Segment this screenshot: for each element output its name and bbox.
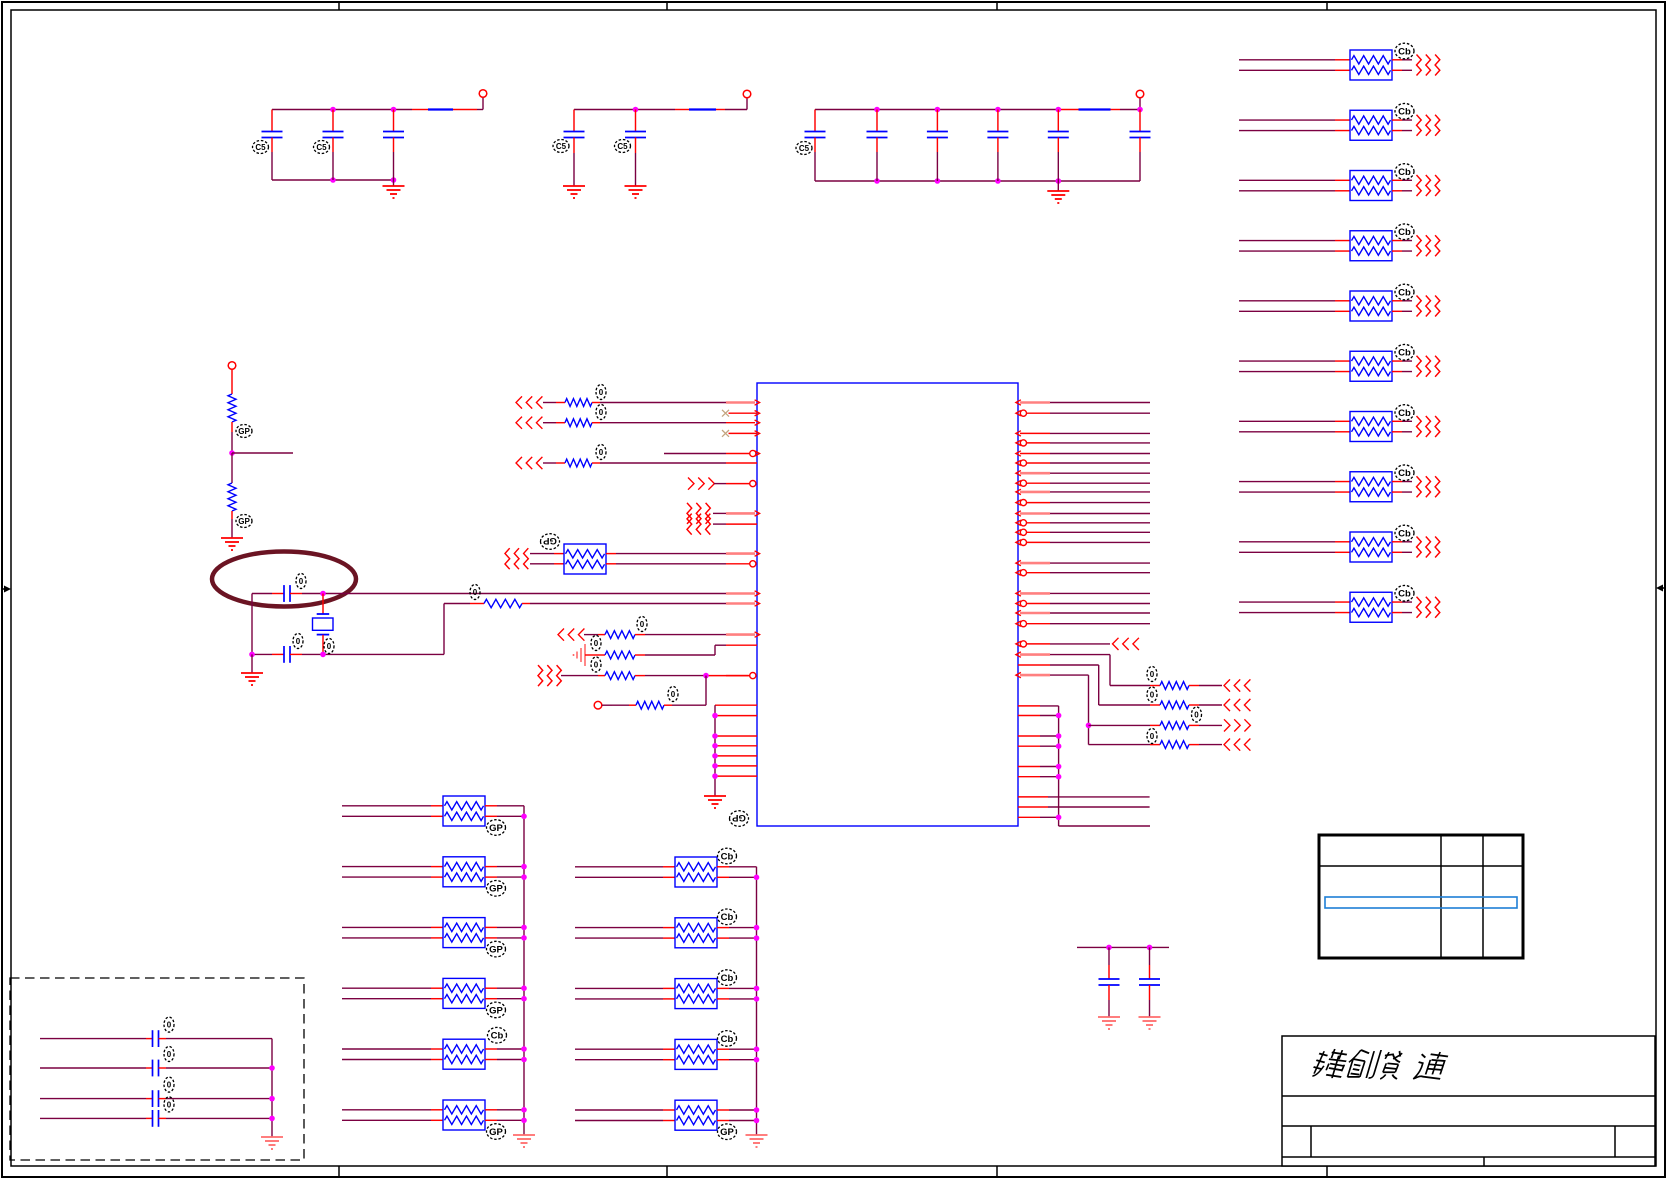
svg-text:0: 0 [599,448,604,457]
connector chevrons RP5 [1417,296,1440,317]
wire inputs RP7 [1239,421,1350,432]
junction left bus y765.9 [712,763,718,769]
label RP4 [1395,224,1414,240]
pin U1 right y513.5 wire [1016,511,1150,516]
label C2 [314,141,330,154]
junction bus RP17 b [521,1118,527,1124]
svg-text:GP: GP [238,427,250,436]
resistor pack RP8 [1350,472,1392,502]
svg-text:C5: C5 [556,142,567,151]
junction right bus y715.5 [1056,713,1062,719]
junction R6 node [703,673,709,679]
label RP20 [718,970,737,986]
ground dashed box [261,1137,283,1149]
resistor R5 with analog ground [574,644,758,666]
resistor pack RP18 [675,857,717,887]
svg-text:0: 0 [167,1050,172,1059]
svg-text:0: 0 [327,642,332,651]
svg-text:C5: C5 [617,142,628,151]
wire outputs RP16 [485,1049,524,1060]
wire inputs RP13 [342,867,443,878]
junction bus RP18 b [754,875,760,881]
junction bus RP21 b [754,1057,760,1063]
pin stub U1 left y736 [715,735,757,737]
junction bus RP19 b [754,935,760,941]
resistor pack RP7 [1350,412,1392,442]
label R8 [1147,667,1157,682]
wire outputs RP21 [717,1049,757,1060]
pin stub U1 left y715.6 [715,715,757,717]
pin U1 right y563.1 wire [1016,560,1150,565]
svg-text:GP: GP [542,535,556,546]
label C4 [553,140,569,153]
dashed option box [10,978,304,1160]
pin U1 right y473.2 wire [1016,471,1150,476]
wire inputs RP19 [575,928,675,939]
label C5 [615,140,631,153]
label C6 [796,142,812,155]
ground C4 [563,186,585,198]
pin stub U1 right y715.5 [1018,715,1040,717]
pin U1 right y623.7 wire [1016,621,1150,627]
junction bus RP14 b [521,935,527,941]
capacitor C4 [564,110,585,187]
pin U1 right y453.5 wire [1016,451,1150,456]
junction dbox 2 [269,1065,275,1071]
label GND GP [730,811,749,827]
ground group1 [383,180,405,198]
svg-text:0: 0 [299,577,304,586]
junction rail C5 [633,107,639,113]
junction bottom group3 [1056,178,1062,184]
label RP3 [1395,164,1414,180]
junction right bus y817.3 [1056,815,1062,821]
junction right bus y766.5 [1056,764,1062,770]
capacitor C6 [805,110,826,182]
junction dbox 3 [269,1096,275,1102]
wire outputs RP14 [485,927,524,938]
pin U1 right y807.0 long wire [1018,806,1048,808]
svg-text:0: 0 [167,1100,172,1109]
junction bus RP22 b [754,1118,760,1124]
junction bottom group3 [874,178,880,184]
label RP15 [487,1002,506,1018]
resistor pack RP6 [1350,351,1392,381]
svg-text:0: 0 [599,408,604,417]
svg-text:Cb: Cb [721,1034,734,1045]
svg-text:GP: GP [489,1005,503,1016]
label RP10 [1395,585,1414,601]
wire outputs RP12 [485,806,524,817]
resistor R row y402.5 with connector [516,396,760,408]
connector chevrons RP10 [1417,597,1440,618]
svg-text:0: 0 [599,388,604,397]
pin stub U1 right y776.7 [1018,776,1040,778]
wire VCC rail group2 [574,98,747,110]
wire left pack bus [523,806,525,1135]
pin U1 right y603.5 wire [1016,600,1150,606]
capacitor C5 [625,110,646,187]
junction right bus y776.7 [1056,774,1062,780]
pin U1 right y502.6 wire [1016,500,1150,506]
svg-text:Cb: Cb [1398,468,1411,479]
capacitor C7 [867,110,888,182]
wire inputs RP22 [575,1110,675,1121]
capacitor C8 [927,110,948,182]
pin stub U1 left y755.9 [715,755,757,757]
capacitor C12 and wire XTAL1 [252,585,760,602]
wire inputs RP20 [575,988,675,999]
resistor pack RP22 [675,1100,717,1130]
capacitor C16 [40,1090,272,1107]
junction bottom rail C2 [330,177,336,183]
pin stub U1 left y705 [715,704,757,706]
wire to pin y453 [664,450,760,456]
svg-text:C5: C5 [799,144,810,153]
label RP14 [487,941,506,957]
label RP9 [1395,525,1414,541]
company logo text [1311,1049,1449,1079]
wire outputs RP9 [1392,542,1412,553]
pin U1 right y613.0 wire [1016,610,1150,615]
wire outputs RP19 [717,928,757,939]
label C15 [164,1047,174,1062]
svg-text:0: 0 [594,639,599,648]
wire pin y675 vertical [1016,672,1089,744]
label C1 [253,141,269,154]
capacitor C1 [262,110,283,181]
svg-text:C5: C5 [255,143,266,152]
resistor pack RP4 [1350,231,1392,261]
ground left pack bus [513,1135,535,1147]
pin U1 right y593.4 wire [1016,591,1150,596]
ground divider [221,538,243,550]
wire outputs RP13 [485,867,524,878]
resistor R4 row with connector [558,629,760,641]
junction XTAL2 [320,652,326,658]
terminal pin group1 [479,90,487,98]
svg-text:C5: C5 [316,143,327,152]
title block [1282,1036,1655,1166]
junction rail group3 [995,107,1001,113]
junction bus RP19 a [754,925,760,931]
connector inputs RP11 [505,548,564,569]
wire inputs RP5 [1239,301,1350,312]
wire outputs RP1 [1392,60,1412,71]
top border zone ticks [339,2,1327,10]
resistor R8 series row [1016,652,1251,692]
label R7 [668,687,678,702]
junction bus RP17 a [521,1107,527,1113]
wire outputs RP3 [1392,180,1412,191]
wire crystal ground leg [251,594,253,655]
wire inputs RP21 [575,1049,675,1060]
resistor pack RP12 [443,796,485,826]
junction bus RP13 a [521,864,527,870]
pin U1 right y402.5 wire [1016,400,1150,405]
resistor R row y463 with connector [516,457,757,469]
ground C5 [625,186,647,198]
junction bus RP21 a [754,1046,760,1052]
ground group3 [1047,181,1069,203]
svg-text:GP: GP [731,812,745,823]
label RP11 [541,534,560,550]
junction bus RP16 b [521,1057,527,1063]
svg-text:0: 0 [1194,710,1199,719]
pin U1 right y442.9 wire [1016,440,1150,446]
connector chevrons RP4 [1417,235,1440,256]
resistor pack RP9 [1350,532,1392,562]
resistor pack RP16 [443,1039,485,1069]
svg-text:Cb: Cb [1398,46,1411,57]
pin stub U1 right y817.3 [1018,816,1040,818]
capacitor C10 [1048,110,1069,182]
junction left bus y776.1 [712,773,718,779]
svg-text:0: 0 [473,588,478,597]
connector chevrons RP7 [1417,416,1440,437]
svg-text:Cb: Cb [1398,348,1411,359]
wire divider tap [232,452,293,454]
wire outputs RP10 [1392,602,1412,613]
connector chevrons RP6 [1417,356,1440,377]
svg-text:Cb: Cb [1398,227,1411,238]
label RP21 [718,1031,737,1047]
junction bus RP13 b [521,874,527,880]
no-connect pin U1 y433 [722,430,760,437]
junction cap pair 2 [1147,945,1153,951]
label R3 [470,585,480,600]
junction right bus y736.0 [1056,733,1062,739]
wire dashed box bus [271,1039,273,1137]
junction left bus y715.6 [712,713,718,719]
resistor pack RP11 [564,544,606,574]
junction rail group3 [935,107,941,113]
junction left bus y755.9 [712,753,718,759]
label C14 [164,1017,174,1032]
wire inputs RP3 [1239,180,1350,191]
junction dbox 4 [269,1116,275,1122]
resistor R7 row with terminal [594,676,706,710]
terminal pin divider [228,362,236,370]
wire outputs RP15 [485,988,524,999]
wire inputs RP17 [342,1110,443,1121]
wire inputs RP16 [342,1049,443,1060]
label RP18 [718,848,737,864]
wire to crystal ground [251,654,253,673]
ground crystal [241,673,263,685]
pin stub U1 left y765.9 [715,765,757,767]
junction left bus y745.8 [712,743,718,749]
svg-text:0: 0 [167,1021,172,1030]
svg-text:GP: GP [489,823,503,834]
no-connect pin U1 y413 [722,410,760,417]
junction y725 [1086,723,1092,729]
connector chevrons RP1 [1417,55,1440,76]
resistor R11 series row [1089,739,1251,751]
junction rail group3 [1137,107,1143,113]
label C13 [293,634,303,649]
svg-text:Cb: Cb [1398,167,1411,178]
resistor pack RP15 [443,978,485,1008]
wire right pin bus [1058,706,1060,826]
wire inputs RP9 [1239,542,1350,553]
wire outputs RP18 [717,867,757,878]
label R4 [637,617,647,632]
bottom border zone ticks [339,1166,1327,1176]
label C12 [296,574,306,589]
wire VCC rail group1 [272,97,483,180]
wire outputs RP22 [717,1110,757,1121]
label R9 [1147,687,1157,702]
resistor pack RP13 [443,857,485,887]
wire outputs RP6 [1392,361,1412,372]
svg-text:GP: GP [720,1127,734,1138]
connector output y644 [1016,638,1139,650]
junction bus RP15 a [521,985,527,991]
resistor R10 series row [1089,719,1251,731]
pin U1 right y483.2 wire [1016,480,1150,486]
svg-text:0: 0 [1150,732,1155,741]
label RP13 [487,881,506,897]
pin stub U1 right y736.0 [1018,735,1040,737]
svg-text:GP: GP [238,517,250,526]
svg-text:Cb: Cb [1398,528,1411,539]
svg-text:Cb: Cb [721,973,734,984]
label RP2 [1395,103,1414,119]
wire outputs RP17 [485,1110,524,1121]
wire inputs RP10 [1239,602,1350,613]
wire RP11 out top [606,551,760,556]
label R1 [236,425,252,438]
label R y422.7 [596,405,606,420]
connector input y524 [687,514,757,535]
ground right pack bus [746,1135,768,1147]
pin U1 right y522.8 wire [1016,520,1150,526]
wire inputs RP2 [1239,120,1350,131]
capacitor C2 [323,110,344,181]
svg-text:0: 0 [1150,690,1155,699]
label R y463 [596,445,606,460]
wire right bus to east [1059,825,1150,827]
terminal pin group3 [1136,90,1144,98]
revision highlight row [1325,897,1517,908]
label RP5 [1395,284,1414,300]
wire inputs RP15 [342,988,443,999]
connector chevrons RP8 [1417,476,1440,497]
label R2 [236,515,252,528]
label R6 [591,657,601,672]
pin U1 right y463.0 wire [1016,460,1150,466]
ground C19 [1139,1017,1161,1029]
svg-text:GP: GP [489,945,503,956]
pin U1 right y572.7 wire [1016,570,1150,576]
junction right bus y746.2 [1056,743,1062,749]
resistor pack RP10 [1350,592,1392,622]
svg-text:0: 0 [671,690,676,699]
capacitor C3 [383,110,404,181]
junction top rail C3 [391,107,397,113]
label RP22 [718,1124,737,1140]
capacitor C14 [40,1030,272,1047]
junction bus RP12 b [521,814,527,820]
wire inputs RP18 [575,867,675,878]
wire outputs RP5 [1392,301,1412,312]
junction bus RP15 b [521,996,527,1002]
wire inputs RP14 [342,927,443,938]
resistor R6 row with connector [538,665,756,686]
junction bottom group3 [995,178,1001,184]
pin stub U1 left y745.8 [715,745,757,747]
label RP12 [487,820,506,836]
wire right pack bus [756,867,758,1135]
svg-text:Cb: Cb [721,912,734,923]
svg-text:0: 0 [594,660,599,669]
right border centerline arrow [1656,585,1665,592]
label RP8 [1395,465,1414,481]
wire outputs RP8 [1392,482,1412,493]
resistor pack RP21 [675,1039,717,1069]
resistor pack RP1 [1350,50,1392,80]
junction left bus y736 [712,733,718,739]
svg-text:0: 0 [296,637,301,646]
wire left pin bus [714,705,716,796]
crystal Y1 [313,594,334,655]
svg-text:Cb: Cb [1398,589,1411,600]
capacitor C17 [40,1110,272,1127]
svg-text:Cb: Cb [1398,107,1411,118]
pin stub U1 right y766.5 [1018,766,1040,768]
wire inputs RP6 [1239,361,1350,372]
junction rail group3 [874,107,880,113]
wire VCC rail group3 [815,98,1140,181]
junction bottom rail C3 [391,177,397,183]
wire outputs RP20 [717,988,757,999]
pin stub U1 left y776.1 [715,775,757,777]
resistor R row y422.7 with connector [516,417,760,429]
highlight ellipse annotation [212,552,356,607]
label R11 [1147,729,1157,744]
label C16 [164,1077,174,1092]
svg-text:Cb: Cb [491,1031,504,1042]
svg-text:GP: GP [489,884,503,895]
pin U1 right y413.2 wire [1016,410,1150,416]
wire RP11 out bottom [606,561,756,567]
junction bus RP20 a [754,986,760,992]
terminal pin group2 [743,90,751,98]
connector input y483 [688,478,756,490]
junction bus RP22 a [754,1107,760,1113]
resistor pack RP20 [675,979,717,1009]
junction bus RP20 b [754,996,760,1002]
wire inputs RP1 [1239,60,1350,71]
resistor pack RP17 [443,1100,485,1130]
wire inputs RP4 [1239,241,1350,252]
junction crystal gnd [249,652,255,658]
svg-text:0: 0 [640,620,645,629]
label C17 [164,1097,174,1112]
connector chevrons RP2 [1417,115,1440,136]
svg-text:GP: GP [489,1127,503,1138]
resistor R9 series row [1018,665,1250,711]
connector chevrons RP9 [1417,537,1440,558]
junction bus RP16 a [521,1046,527,1052]
resistor pack RP3 [1350,171,1392,201]
junction cap pair 1 [1106,945,1112,951]
pin U1 right y491.9 wire [1016,489,1150,494]
resistor pack RP14 [443,918,485,948]
ground C18 [1098,1017,1120,1029]
resistor R1 divider top [228,369,236,453]
